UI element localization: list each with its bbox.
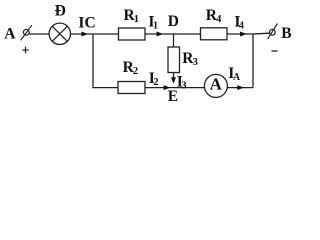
resistor R1 xyxy=(119,28,146,40)
resistor R2 xyxy=(118,82,145,94)
svg-text:B: B xyxy=(281,25,291,42)
current arrow I1 xyxy=(157,32,164,37)
wire ammeter to bottom right corner with arrow IA xyxy=(227,87,253,89)
svg-text:4: 4 xyxy=(239,21,245,32)
svg-text:4: 4 xyxy=(216,14,222,25)
wire R1 to node D with arrow I1 xyxy=(145,33,174,35)
terminal B xyxy=(268,24,278,39)
terminal A xyxy=(21,25,32,40)
resistor R3 xyxy=(168,47,180,73)
current arrow I4 xyxy=(240,32,247,37)
wire A to lamp xyxy=(29,33,49,35)
svg-text:1: 1 xyxy=(153,21,158,32)
wire lamp to node C xyxy=(71,33,94,35)
ammeter A xyxy=(204,74,227,97)
wire node E to ammeter xyxy=(174,87,206,89)
wire node C down and to R2 (left branch) xyxy=(93,34,118,88)
svg-text:2: 2 xyxy=(133,66,138,77)
wire right vertical xyxy=(252,34,254,88)
wire node D down to R3 xyxy=(173,34,175,47)
svg-text:C: C xyxy=(85,15,96,32)
wire R2 to node E with arrow I2 xyxy=(145,87,174,89)
current arrow I2 xyxy=(164,85,171,90)
wire R4 to right corner with arrow I4 xyxy=(227,33,253,35)
svg-text:3: 3 xyxy=(181,81,186,92)
wire right corner to terminal B xyxy=(253,32,269,35)
resistor R4 xyxy=(201,28,228,40)
lamp D (den) xyxy=(49,23,70,44)
current arrow I3 xyxy=(171,77,176,84)
svg-text:3: 3 xyxy=(193,57,198,68)
svg-text:A: A xyxy=(210,75,223,94)
current arrow I xyxy=(81,32,88,37)
current arrow IA xyxy=(237,85,244,90)
svg-text:A: A xyxy=(233,72,241,83)
polarity minus xyxy=(271,50,277,52)
wire node C to R1 xyxy=(93,33,119,35)
svg-text:A: A xyxy=(4,25,16,42)
svg-text:D: D xyxy=(168,13,179,30)
svg-text:E: E xyxy=(168,88,178,105)
svg-text:Đ: Đ xyxy=(55,2,66,19)
svg-text:2: 2 xyxy=(153,77,158,88)
wire R3 down toward node E with arrow I3 xyxy=(173,73,175,79)
wire node D to R4 xyxy=(174,33,201,35)
polarity + xyxy=(22,47,29,54)
svg-text:1: 1 xyxy=(134,14,139,25)
